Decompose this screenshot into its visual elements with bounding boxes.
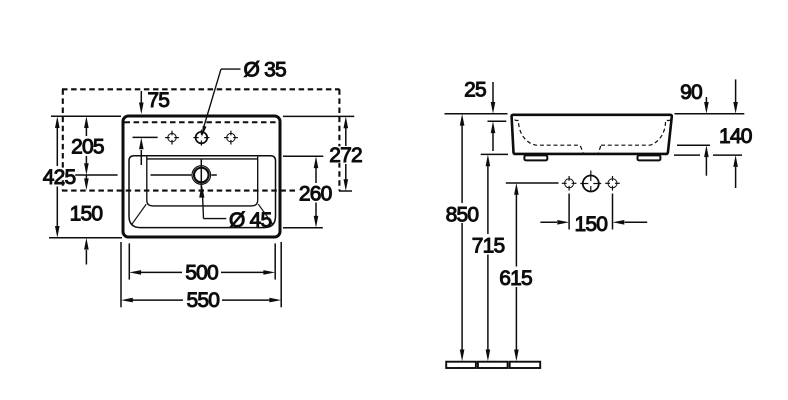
svg-text:150: 150: [574, 213, 607, 236]
svg-text:150: 150: [70, 203, 103, 226]
drain hidden lines (side): [580, 146, 600, 154]
dim 150 (side, outside arrows): [540, 221, 557, 223]
dim 272 vertical: [345, 128, 347, 180]
foot left: [524, 155, 547, 160]
dim 615 rail: [515, 195, 517, 267]
leader line diameter 45: [203, 197, 227, 219]
leader line diameter 35: [204, 69, 241, 127]
dim 90: [705, 97, 707, 103]
bowl bottom extension (90): [677, 144, 710, 146]
faucet hole centre (plan): [193, 130, 209, 146]
left extension lines: [49, 116, 122, 238]
svg-text:Ø 45: Ø 45: [229, 209, 271, 232]
svg-text:850: 850: [446, 203, 479, 226]
foot right: [638, 155, 661, 160]
hidden dashed line behind rim: [125, 121, 279, 123]
tap hole left (side): [562, 176, 577, 191]
tap hole right (side): [605, 176, 620, 191]
dim 205 vertical: [85, 127, 87, 164]
floor tile centre: [478, 362, 508, 368]
dim 140: [735, 79, 737, 102]
dim 500 horizontal: [140, 271, 264, 273]
dashed centre line of drain (260 line): [62, 190, 297, 192]
dim 150 vertical (outside arrows): [85, 176, 87, 180]
svg-text:Ø 35: Ø 35: [244, 59, 286, 82]
right extension lines: [283, 116, 354, 227]
svg-text:25: 25: [464, 78, 486, 101]
dim 260 vertical: [315, 168, 317, 217]
dim 25: [492, 82, 494, 102]
bottom extension lines (500/550): [121, 242, 281, 307]
dim 425 vertical: [56, 127, 58, 227]
basin outer rim (plan): [123, 116, 280, 237]
svg-text:75: 75: [147, 89, 169, 112]
top extension line right: [675, 113, 745, 115]
svg-text:615: 615: [499, 267, 532, 290]
drain hole circles (plan): [192, 166, 211, 185]
bowl corner slope diagonal right: [258, 204, 272, 224]
svg-text:500: 500: [185, 262, 218, 285]
svg-text:140: 140: [719, 125, 752, 148]
dim 715 rail: [487, 166, 489, 234]
svg-text:550: 550: [186, 289, 219, 312]
dim 550 horizontal: [132, 299, 270, 301]
svg-text:715: 715: [472, 235, 505, 258]
svg-text:205: 205: [71, 136, 104, 159]
bowl outline (plan): [129, 156, 276, 228]
floor tile left: [446, 362, 476, 368]
dim 850 rail: [461, 125, 463, 203]
bottom extension (715): [481, 153, 508, 155]
tap hole extension (615): [506, 182, 559, 184]
inner rim extension (25): [488, 120, 507, 122]
bowl inner wall lines: [147, 157, 258, 206]
feet bottom extension (140): [674, 154, 700, 156]
svg-text:425: 425: [43, 166, 76, 189]
faucet hole right (plan): [224, 131, 238, 145]
tap hole centre (side): [580, 171, 601, 192]
svg-text:272: 272: [329, 144, 362, 167]
svg-text:260: 260: [299, 183, 332, 206]
dim 75 (rear edge to tap holes): [133, 91, 158, 165]
svg-text:90: 90: [680, 81, 702, 104]
bowl corner slope diagonal left: [132, 204, 146, 224]
basin interior hidden outline (dashed): [515, 120, 671, 146]
dashed installation outline rectangle: [62, 89, 340, 191]
basin body profile: [512, 115, 672, 154]
drain centre lines: [151, 160, 217, 189]
floor tile right: [510, 362, 541, 368]
tap hole extension lines down: [568, 194, 570, 230]
top extension line left: [445, 113, 508, 115]
faucet hole left (plan): [165, 131, 179, 145]
